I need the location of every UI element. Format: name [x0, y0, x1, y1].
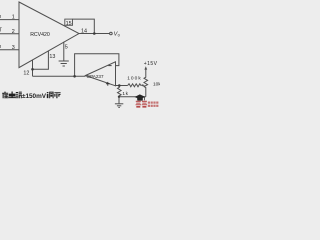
svg-text:13: 13 — [49, 54, 55, 60]
svg-text:12: 12 — [23, 71, 29, 77]
resistor R1 100k horizontal — [128, 84, 143, 87]
wire noninverting input to divider node — [116, 85, 128, 87]
svg-text:+15V: +15V — [144, 61, 158, 67]
wire R2 bottom to ground stem — [118, 97, 120, 104]
ground under R2 — [115, 104, 123, 108]
ground under pin5 — [59, 61, 69, 66]
wire output pin14 to terminal Vo — [79, 33, 110, 35]
op-amp U1 RCV420 triangle body — [19, 2, 79, 68]
+15V supply arrow — [144, 66, 147, 69]
wiper arrow into potentiometer — [142, 84, 145, 86]
glyph 节 — [54, 92, 60, 98]
watermark graduation cap logo — [135, 94, 146, 100]
svg-text:15: 15 — [66, 21, 72, 27]
junction dot feedback tee — [73, 75, 76, 78]
potentiometer R3 10k vertical — [144, 69, 148, 97]
svg-text:OPA237: OPA237 — [87, 74, 104, 79]
wire pin5 to ground — [63, 42, 65, 61]
op-amp U2 OPA237 triangle body — [86, 62, 116, 86]
wire common net to op-amp output — [33, 75, 86, 77]
wire bottom rail from ground junction to potentiometer bottom — [119, 96, 146, 98]
svg-text:14: 14 — [81, 29, 87, 35]
wire feedback loop over op-amp U2 — [75, 54, 119, 77]
svg-text:100k: 100k — [127, 76, 141, 82]
wire pin13 down and left — [33, 51, 49, 70]
wire feedback sense pin15 to output node — [73, 19, 95, 33]
junction dot pin12/pin13 node — [31, 68, 34, 71]
glyph 输 — [2, 92, 8, 99]
svg-text:n: n — [0, 14, 2, 20]
background — [0, 0, 160, 110]
svg-text:3: 3 — [12, 45, 15, 51]
wire pin2 input line — [0, 33, 19, 35]
svg-text:RCV420: RCV420 — [30, 32, 50, 38]
svg-text:2: 2 — [12, 29, 15, 35]
junction dot divider node R2 top — [118, 84, 121, 87]
svg-text:1k: 1k — [122, 91, 128, 97]
wire pin1 input line — [0, 19, 19, 21]
terminal circle Vo — [110, 32, 113, 35]
svg-text:±150mV: ±150mV — [22, 93, 47, 100]
watermark red characters (drawn) — [136, 101, 159, 108]
glyph 出 — [8, 92, 15, 99]
wire pin12 down to junction — [32, 60, 34, 77]
caption 输出端±150mV调节 (CJK drawn as glyph blocks) — [2, 92, 60, 99]
glyph 调 — [47, 92, 54, 99]
op-amp noninverting input plus sign — [106, 82, 110, 86]
junction dot output/sense node — [93, 32, 96, 35]
junction dot ground rail node — [118, 96, 120, 98]
pin box 15 — [65, 19, 73, 25]
svg-text:T: T — [0, 28, 2, 34]
svg-text:1: 1 — [12, 15, 15, 21]
svg-text:10k: 10k — [153, 81, 160, 87]
svg-text:n: n — [0, 44, 2, 50]
resistor R2 1k vertical — [118, 86, 122, 97]
wire pin3 input line — [0, 49, 19, 51]
svg-text:5: 5 — [65, 44, 68, 50]
op-amp inverting input minus sign — [108, 64, 111, 67]
glyph 端 — [16, 92, 22, 99]
